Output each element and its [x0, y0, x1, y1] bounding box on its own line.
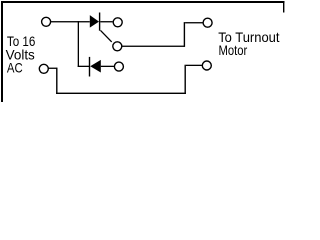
diode D1 cathode bar [99, 13, 100, 31]
border frame (left edge) [1, 1, 3, 102]
diode D2 (lower, pointing left) triangle [90, 60, 101, 73]
wire vertical up to top-right run [184, 22, 185, 47]
diode D1 (upper, pointing right) triangle [90, 15, 99, 28]
terminal E (turnout motor upper) [203, 18, 212, 27]
label "To 16 Volts AC" [6, 33, 36, 76]
wire down to bottom run [56, 68, 57, 94]
svg-text:Motor: Motor [219, 42, 248, 58]
wire horizontal to terminal E [185, 22, 203, 23]
terminal F (lower AC input) [39, 64, 48, 73]
wire A to diode D1 anode [51, 21, 90, 22]
wire branch to diode D2 cathode [78, 66, 90, 67]
wire D2 anode to contact C [101, 66, 114, 67]
svg-text:AC: AC [7, 59, 23, 75]
wire bottom run [56, 93, 186, 94]
wire vertical up to terminal G [185, 65, 186, 94]
contact D (lower switch contact) [113, 42, 122, 51]
terminal A (upper AC input) [42, 17, 51, 26]
contact B (upper switch contact) [113, 18, 122, 27]
diode D2 cathode bar [89, 57, 90, 77]
wire D to corner [121, 46, 184, 47]
wire branch down from top wire [78, 21, 79, 67]
contact C (lower diode output) [114, 62, 123, 71]
wire horizontal to terminal G [186, 65, 202, 66]
switch blade wire (diagonal to contact D) [101, 30, 112, 42]
label "To Turnout Motor" [218, 29, 279, 58]
border frame (right edge stub) [283, 1, 284, 13]
terminal G (turnout motor lower) [202, 61, 211, 70]
wire F right [48, 68, 57, 69]
border frame (top edge) [1, 1, 285, 3]
wire D1 cathode to contact B [100, 21, 112, 22]
